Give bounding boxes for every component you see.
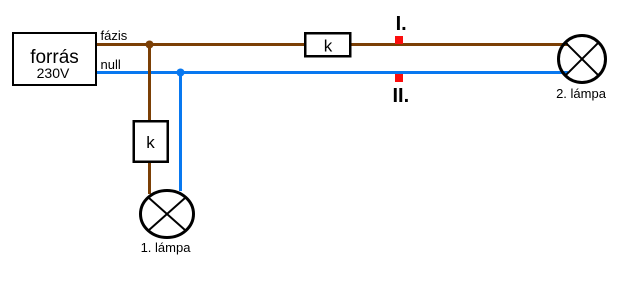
source box forrás 230V [13,33,96,85]
svg-text:null: null [101,57,121,72]
svg-text:1. lámpa: 1. lámpa [141,240,192,255]
lamp 2 symbol [559,36,606,83]
svg-text:fázis: fázis [101,28,128,43]
wire brown vertical to lamp 1 [148,45,151,195]
red marker I on fázis wire [395,36,403,44]
svg-text:k: k [324,37,333,56]
red marker II on null wire [395,74,403,82]
junction dot brown [146,41,154,49]
svg-text:II.: II. [393,85,410,107]
svg-text:I.: I. [396,13,407,35]
junction dot blue [177,69,185,77]
wire null horizontal blue [97,71,568,74]
switch k (horizontal wire) [305,33,350,56]
svg-text:2. lámpa: 2. lámpa [556,86,607,101]
svg-text:230V: 230V [37,65,70,81]
lamp 1 symbol [141,191,194,238]
wire blue vertical to lamp 1 [179,73,182,192]
wire fázis horizontal brown [97,43,568,46]
svg-text:k: k [146,133,155,152]
switch k (vertical wire) [134,121,168,162]
